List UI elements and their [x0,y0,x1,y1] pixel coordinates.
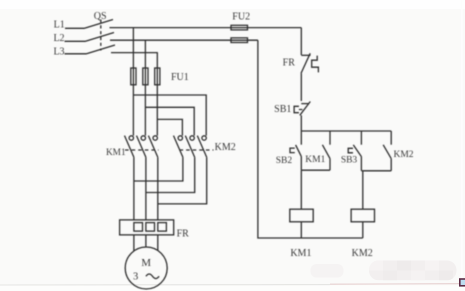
svg-text:FR: FR [177,229,190,240]
svg-text:QS: QS [94,11,107,22]
svg-text:SB1: SB1 [274,104,291,115]
svg-text:KM1: KM1 [305,155,325,165]
svg-text:KM2: KM2 [393,150,413,160]
svg-text:SB2: SB2 [276,156,293,166]
svg-text:FU2: FU2 [232,11,250,22]
svg-text:FR: FR [283,58,296,69]
svg-text:M: M [141,257,151,269]
svg-text:KM1: KM1 [106,148,126,158]
svg-text:L3: L3 [53,46,64,57]
svg-text:KM1: KM1 [290,248,311,259]
svg-text:3: 3 [133,271,138,282]
svg-text:L1: L1 [54,20,65,31]
svg-text:KM2: KM2 [352,248,373,259]
svg-text:L2: L2 [53,33,64,44]
svg-text:KM2: KM2 [215,142,236,153]
svg-text:FU1: FU1 [171,72,189,83]
svg-text:SB3: SB3 [341,155,358,165]
